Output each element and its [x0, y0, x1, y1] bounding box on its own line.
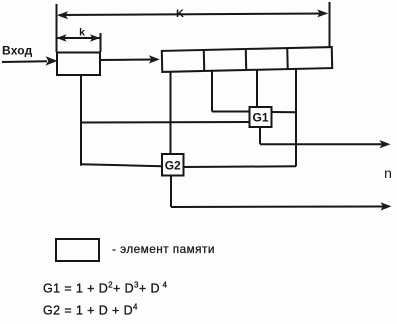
wire G1 right to cell4 vertical [272, 111, 297, 113]
svg-text:K: K [176, 8, 184, 20]
tap wire cell1 to G2 top [170, 71, 172, 154]
svg-text:G1: G1 [252, 111, 268, 125]
dimension k right tick [100, 33, 102, 52]
tap wire cell3 to G1 top [256, 69, 258, 107]
svg-text:Вход: Вход [2, 44, 33, 58]
G1 output arrowhead [380, 140, 391, 148]
adder box G2 [162, 154, 184, 176]
dimension K line [59, 14, 326, 16]
legend memory element box [56, 239, 99, 261]
svg-text:k: k [79, 27, 85, 39]
shift register (4 cells) [162, 47, 332, 72]
svg-text:n: n [384, 165, 392, 181]
G1 output horizontal wire [260, 143, 383, 145]
dimension k right arrowhead [90, 34, 100, 42]
svg-text:G1 = 1 + D2+ D3+ D 4: G1 = 1 + D2+ D3+ D 4 [43, 281, 167, 296]
dimension K left arrowhead [57, 11, 68, 19]
arrowhead into shift register [149, 55, 160, 63]
wire input tap to G2 left [81, 164, 163, 166]
G2 output horizontal wire [171, 206, 384, 209]
G2 output arrowhead [381, 202, 392, 210]
dimension k line [57, 37, 100, 39]
wire G2 right to cell4 vertical [184, 165, 297, 168]
svg-text:G2: G2 [165, 158, 181, 172]
dimension K left tick [56, 4, 58, 52]
svg-text:G2 = 1 + D + D4: G2 = 1 + D + D4 [43, 303, 138, 318]
input tap vertical wire [80, 75, 82, 166]
wire input cell to shift register [101, 59, 153, 62]
input arrow wire [2, 60, 47, 63]
adder box G1 [250, 107, 272, 127]
dimension K right tick [329, 2, 331, 47]
dimension K right arrowhead [317, 9, 328, 17]
input memory cell box [57, 53, 100, 76]
G1 output vertical wire [259, 127, 261, 144]
wire input tap to G1 left (long horizontal) [81, 121, 250, 124]
dimension k left arrowhead [57, 34, 67, 42]
tap wire cell2 vertical [211, 70, 213, 111]
svg-text:- элемент памяти: - элемент памяти [112, 242, 215, 256]
G2 output vertical wire [170, 176, 172, 208]
input arrowhead [46, 56, 58, 65]
tap wire cell4 vertical [295, 69, 297, 167]
tap wire cell2 horizontal to G1 left [212, 111, 250, 113]
